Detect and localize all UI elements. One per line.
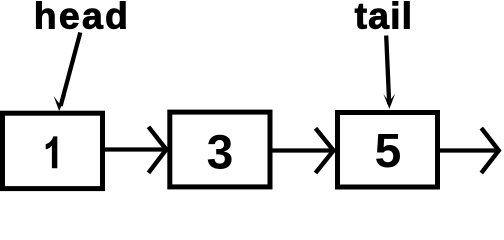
node box 2 <box>170 112 270 187</box>
value 1 <box>46 136 58 168</box>
head pointer wire <box>61 33 81 107</box>
tail pointer arrowhead <box>383 94 395 109</box>
svg-text:head: head <box>34 0 130 37</box>
svg-text:3: 3 <box>207 127 234 180</box>
svg-text:tail: tail <box>355 0 414 37</box>
link wire 2 <box>271 148 332 152</box>
tail pointer wire <box>386 36 389 105</box>
link arrowhead 2 <box>316 128 334 173</box>
link arrowhead 3 <box>481 128 499 173</box>
svg-text:5: 5 <box>375 125 402 178</box>
node box 1 <box>3 113 103 188</box>
node box 3 <box>338 113 438 188</box>
head pointer arrowhead <box>54 95 67 111</box>
linked-list diagram <box>0 0 504 192</box>
link arrowhead 1 <box>149 127 167 173</box>
link wire 1 <box>104 147 165 151</box>
link wire 3 <box>438 148 497 152</box>
